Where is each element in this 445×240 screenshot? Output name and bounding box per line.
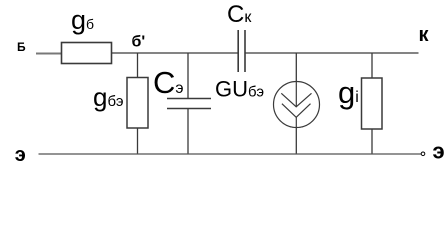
- wire source branch upper: [295, 53, 297, 82]
- wire emitter rail: [39, 153, 422, 155]
- wire top: Cк right plate to collector terminal: [245, 52, 419, 54]
- wire source branch lower: [295, 127, 297, 154]
- svg-text:gб: gб: [71, 5, 94, 35]
- svg-text:э: э: [15, 144, 26, 166]
- capacitor Cэ: [167, 98, 211, 100]
- wire gбэ to emitter rail: [137, 128, 139, 154]
- svg-text:э: э: [433, 139, 445, 164]
- svg-text:Б: Б: [17, 40, 26, 54]
- svg-text:Cк: Cк: [227, 1, 252, 28]
- resistor gбэ: [127, 78, 148, 129]
- svg-text:б': б': [132, 34, 146, 51]
- svg-text:Cэ: Cэ: [153, 65, 184, 100]
- resistor gб: [62, 43, 112, 64]
- wire Cэ branch lower: [187, 109, 189, 155]
- svg-text:GUбэ: GUбэ: [215, 77, 264, 102]
- wire base lead: [36, 53, 62, 55]
- wire gi to emitter rail: [371, 129, 373, 154]
- svg-text:gi: gi: [338, 75, 359, 110]
- svg-text:к: к: [419, 24, 430, 46]
- resistor gi: [362, 78, 383, 129]
- wire gi branch upper: [371, 53, 373, 79]
- wire б' branch down: [137, 53, 139, 78]
- current source GUбэ: [274, 82, 320, 128]
- node э right terminal circle: [421, 152, 425, 156]
- capacitor Cк: [237, 30, 239, 72]
- wire Cэ branch upper: [187, 53, 189, 99]
- svg-text:gбэ: gбэ: [93, 82, 124, 112]
- wire top: resistor to Cк left plate: [112, 52, 239, 54]
